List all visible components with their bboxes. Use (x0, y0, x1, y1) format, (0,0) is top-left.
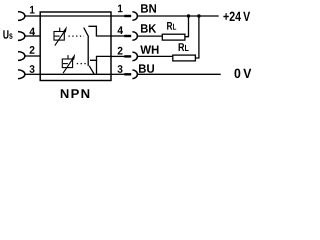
label WH wire (140, 46, 158, 54)
pin number 1 (left) (30, 6, 35, 14)
label BN wire (141, 4, 156, 12)
pin number 4 (left) (30, 28, 36, 36)
connector socket pin 1 right (132, 12, 137, 21)
connector socket pin 2 right (132, 52, 137, 61)
tick on top of detector B2 (67, 55, 69, 59)
wire box to connector pin2 right (111, 55, 125, 57)
connector socket pin 3 right (132, 70, 137, 79)
label RL2 (179, 43, 189, 51)
wire S2 lower terminal to 0V rail (96, 60, 98, 74)
wire RL2 to +24V rail (195, 16, 199, 58)
load resistor RL2 (173, 55, 196, 61)
pin number 1 (right) (118, 5, 123, 13)
label 0 V (235, 69, 252, 79)
label +24 V (223, 12, 250, 21)
wire WH to load resistor (137, 55, 173, 57)
label BK wire (141, 24, 156, 32)
load resistor RL1 (162, 34, 185, 40)
switch S1 fixed contact step to pin4 (88, 26, 111, 36)
junction node BK/+24V (187, 14, 190, 17)
connector socket pin 3 left (18, 70, 25, 79)
wire left pin2 to box (25, 55, 41, 57)
label Us (supply voltage) (3, 30, 12, 39)
pin number 3 (right) (118, 65, 123, 73)
switch S2 fixed contact step from pin2 (90, 56, 111, 60)
switch S2 movable blade (89, 66, 94, 74)
connector socket pin 4 left (18, 32, 25, 41)
pin number 2 (left) (30, 46, 35, 54)
wire common vertical from S1 to S2 (87, 37, 89, 66)
pin number 4 (right) (118, 26, 124, 34)
wire +24V rail through box (pin1 net) (40, 15, 111, 17)
actuation arrow of detector B1 (55, 32, 64, 46)
proximity detector square B2 (62, 59, 72, 68)
switch S1 movable blade (84, 28, 89, 37)
label RL1 (167, 22, 176, 30)
wire box to connector pin1 right (111, 15, 125, 17)
label NPN below box (61, 89, 89, 98)
wire BN to +24V (137, 15, 218, 17)
sensor box outline (40, 12, 111, 81)
wire box to connector pin4 right (111, 35, 125, 37)
connector socket pin 4 right (132, 32, 137, 41)
tick on top of detector B1 (59, 28, 61, 32)
connector socket pin 2 left (18, 52, 25, 61)
actuation arrow of detector B2 (63, 59, 72, 73)
wire RL1 to +24V rail (185, 16, 189, 37)
pin number 3 (left) (30, 65, 35, 73)
wire box to connector pin3 right (111, 73, 125, 75)
wire BU to 0V (137, 73, 220, 75)
pin number 2 (right) (118, 47, 123, 55)
dotted actuation link B1 to switch S1 (69, 35, 85, 37)
label BU wire (139, 64, 154, 72)
wire left pin4 to box (25, 35, 41, 37)
wire left pin3 to box (25, 73, 41, 75)
dotted actuation link B2 to switch S2 (77, 63, 88, 65)
wire BK to load resistor (137, 35, 162, 37)
connector socket pin 1 left (18, 12, 25, 21)
proximity detector square B1 (54, 32, 64, 41)
wire stub inside detector B2 (63, 63, 68, 65)
wire 0V rail through box (pin3 net) (40, 73, 111, 75)
junction node WH/+24V (197, 14, 200, 17)
wire left pin1 to box (25, 15, 41, 17)
wire stub inside detector B1 (55, 35, 60, 37)
